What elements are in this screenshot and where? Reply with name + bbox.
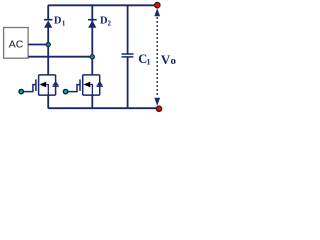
Vo dashed measure line <box>154 8 160 105</box>
transistor Q2 <box>67 75 99 95</box>
node + output (red dot top) <box>155 2 160 7</box>
svg-text:1: 1 <box>147 57 151 66</box>
wire top rail with corner to D1 leg <box>48 5 158 19</box>
svg-text:2: 2 <box>108 20 112 28</box>
diode D2 <box>88 20 97 28</box>
wire Q2 source to bottom rail <box>91 95 93 108</box>
svg-text:V: V <box>161 52 171 67</box>
gate terminal G1 (cyan) <box>19 89 23 93</box>
Q1 body arrow <box>39 82 46 88</box>
wire Q1 source to bottom rail <box>48 95 159 108</box>
node A (green) <box>46 42 50 46</box>
Q2 body arrow <box>84 82 91 88</box>
gate terminal G2 (cyan) <box>63 89 67 93</box>
wire AC lower to node B <box>28 56 92 58</box>
diode D1 <box>44 20 53 28</box>
transistor Q1 <box>23 75 55 95</box>
node - output (red dot bottom) <box>156 106 161 111</box>
node B (green) <box>90 55 94 59</box>
wire D2 leg <box>91 5 93 75</box>
Q1 body diode <box>52 81 58 86</box>
AC source box <box>4 28 29 59</box>
svg-text:D: D <box>54 16 62 27</box>
wire AC upper to node A <box>28 44 48 46</box>
svg-text:o: o <box>171 55 177 67</box>
svg-text:AC: AC <box>9 39 24 51</box>
capacitor C1 <box>122 5 134 108</box>
Q2 body diode <box>97 81 103 86</box>
svg-text:1: 1 <box>62 19 66 27</box>
wire D1 leg lower <box>47 27 49 75</box>
